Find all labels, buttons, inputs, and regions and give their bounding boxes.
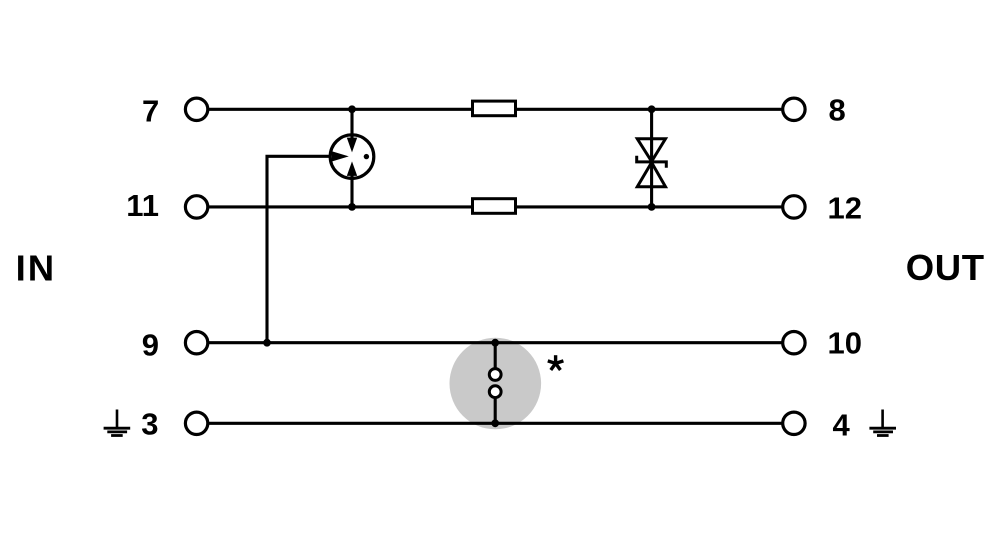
terminal 4 — [783, 412, 805, 434]
svg-text:OUT: OUT — [906, 247, 985, 288]
svg-text:12: 12 — [828, 191, 862, 226]
node on line 3-4 at spark gap — [491, 419, 499, 427]
node on line 9 tap — [263, 339, 271, 347]
terminal 11 — [185, 196, 207, 218]
spark-gap shading circle — [450, 338, 542, 430]
suppressor diode D1 (bidirectional) — [637, 139, 667, 187]
svg-text:9: 9 — [142, 327, 159, 362]
terminal 7 — [185, 98, 207, 120]
svg-text:7: 7 — [142, 94, 159, 129]
wire line 9-10 — [197, 341, 794, 344]
resistor R1 — [473, 101, 516, 116]
gas discharge arrester U1 — [330, 135, 374, 179]
terminal 8 — [783, 98, 805, 120]
spark gap F1 — [489, 343, 501, 424]
terminal 12 — [783, 196, 805, 218]
svg-text:4: 4 — [833, 407, 851, 442]
node on line 7 at arrester — [348, 105, 356, 113]
wire arrester column — [350, 109, 353, 207]
terminal 10 — [783, 332, 805, 354]
svg-text:10: 10 — [828, 326, 862, 361]
node on line 9 at spark gap — [491, 339, 499, 347]
svg-text:11: 11 — [126, 188, 159, 223]
svg-text:3: 3 — [141, 406, 158, 441]
svg-text:IN: IN — [16, 247, 57, 288]
ground right — [869, 410, 896, 436]
wire tap vertical from line 9 — [267, 156, 333, 342]
terminal 9 — [185, 332, 207, 354]
node on line 11 at TVS — [648, 203, 656, 211]
svg-text:8: 8 — [829, 92, 846, 127]
node on line 11 at arrester — [348, 203, 356, 211]
node on line 7 at TVS — [648, 105, 656, 113]
label asterisk — [548, 355, 564, 370]
wire line 3-4 — [197, 422, 794, 425]
wire line 11-12 — [197, 205, 794, 208]
wire TVS column — [650, 109, 653, 207]
resistor R2 — [473, 199, 516, 214]
wire line 7-8 — [197, 108, 794, 111]
ground left — [104, 410, 131, 436]
terminal 3 — [185, 412, 207, 434]
